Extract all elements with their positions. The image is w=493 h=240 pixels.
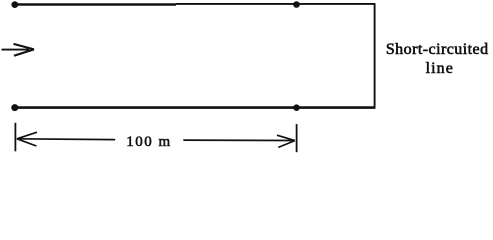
svg-text:Short-circuited: Short-circuited [386, 41, 489, 58]
svg-text:100 m: 100 m [126, 134, 171, 150]
svg-text:line: line [426, 60, 454, 77]
